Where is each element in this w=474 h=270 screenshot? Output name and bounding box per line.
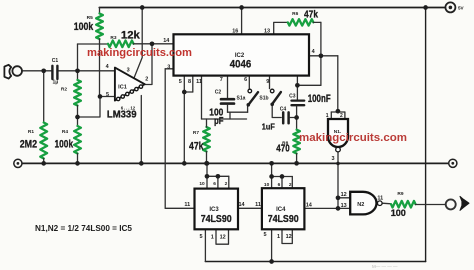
svg-text:100: 100 <box>391 208 406 218</box>
svg-text:1uF: 1uF <box>262 121 275 131</box>
svg-text:1μ: 1μ <box>52 80 58 86</box>
svg-text:N2: N2 <box>357 202 364 208</box>
svg-text:5: 5 <box>199 234 202 240</box>
svg-text:2M2: 2M2 <box>20 138 37 150</box>
svg-text:C3: C3 <box>289 94 296 100</box>
svg-text:100k: 100k <box>74 21 94 33</box>
svg-text:IC1: IC1 <box>118 84 127 90</box>
svg-text:IC3: IC3 <box>209 207 219 213</box>
svg-text:C1: C1 <box>52 58 59 64</box>
svg-text:1: 1 <box>211 234 214 240</box>
svg-text:14: 14 <box>238 202 245 208</box>
svg-text:47k: 47k <box>304 8 318 20</box>
svg-text:S1a: S1a <box>237 96 246 102</box>
svg-text:3: 3 <box>167 64 170 70</box>
svg-text:S1b: S1b <box>259 96 268 102</box>
svg-text:2: 2 <box>340 113 343 119</box>
svg-text:R6: R6 <box>292 11 298 17</box>
svg-text:R4: R4 <box>62 129 68 135</box>
svg-text:6: 6 <box>213 181 216 187</box>
svg-text:10: 10 <box>199 181 205 187</box>
svg-text:14: 14 <box>306 202 313 208</box>
svg-text:R1: R1 <box>28 129 34 135</box>
svg-text:470: 470 <box>276 143 290 155</box>
svg-text:100k: 100k <box>55 138 74 150</box>
svg-text:11: 11 <box>184 202 190 208</box>
svg-text:5: 5 <box>106 92 109 98</box>
svg-text:R2: R2 <box>61 87 67 93</box>
svg-text:11: 11 <box>377 196 383 202</box>
svg-text:R9: R9 <box>397 191 403 197</box>
svg-text:5: 5 <box>179 79 182 85</box>
svg-text:10: 10 <box>264 182 270 188</box>
svg-text:12: 12 <box>341 192 347 198</box>
svg-text:5: 5 <box>263 232 266 238</box>
svg-text:R7: R7 <box>193 130 199 136</box>
svg-text:2: 2 <box>145 77 148 83</box>
svg-text:3: 3 <box>127 68 130 74</box>
svg-text:1: 1 <box>277 234 280 240</box>
svg-text:74LS90: 74LS90 <box>268 214 299 225</box>
svg-text:C2: C2 <box>215 90 222 96</box>
svg-text:makingcircuits.com: makingcircuits.com <box>299 132 407 144</box>
svg-text:11: 11 <box>255 202 261 208</box>
svg-text:74LS90: 74LS90 <box>201 214 232 225</box>
svg-text:N1,N2 = 1/2 74LS00 = IC5: N1,N2 = 1/2 74LS00 = IC5 <box>35 224 132 233</box>
svg-text:12: 12 <box>286 234 292 240</box>
svg-text:7: 7 <box>220 77 223 83</box>
svg-text:4046: 4046 <box>230 58 251 70</box>
svg-text:6: 6 <box>278 182 281 188</box>
svg-text:9: 9 <box>266 79 269 85</box>
svg-text:100nF: 100nF <box>308 93 331 105</box>
svg-text:13: 13 <box>264 29 270 35</box>
svg-text:R5: R5 <box>87 15 93 21</box>
svg-text:3: 3 <box>331 156 334 162</box>
svg-text:47k: 47k <box>189 140 204 152</box>
svg-text:11: 11 <box>196 79 202 85</box>
svg-text:14: 14 <box>163 38 170 44</box>
svg-text:C4: C4 <box>280 106 287 112</box>
svg-text:1: 1 <box>326 113 329 119</box>
svg-text:LM339: LM339 <box>107 110 137 121</box>
svg-text:8: 8 <box>188 79 191 85</box>
svg-text:R3: R3 <box>110 35 116 41</box>
svg-text:2: 2 <box>225 181 228 187</box>
svg-text:IC4: IC4 <box>276 207 286 213</box>
svg-text:12k: 12k <box>121 29 141 41</box>
svg-text:pF: pF <box>214 116 224 127</box>
svg-text:2: 2 <box>289 182 292 188</box>
svg-text:M— — — —: M— — — — <box>372 264 398 269</box>
svg-text:6: 6 <box>244 77 247 83</box>
svg-text:16: 16 <box>232 29 238 35</box>
svg-text:makingcircuits.com: makingcircuits.com <box>87 47 192 59</box>
svg-text:12: 12 <box>220 234 226 240</box>
svg-text:5V: 5V <box>458 5 465 10</box>
svg-text:13: 13 <box>341 203 347 209</box>
